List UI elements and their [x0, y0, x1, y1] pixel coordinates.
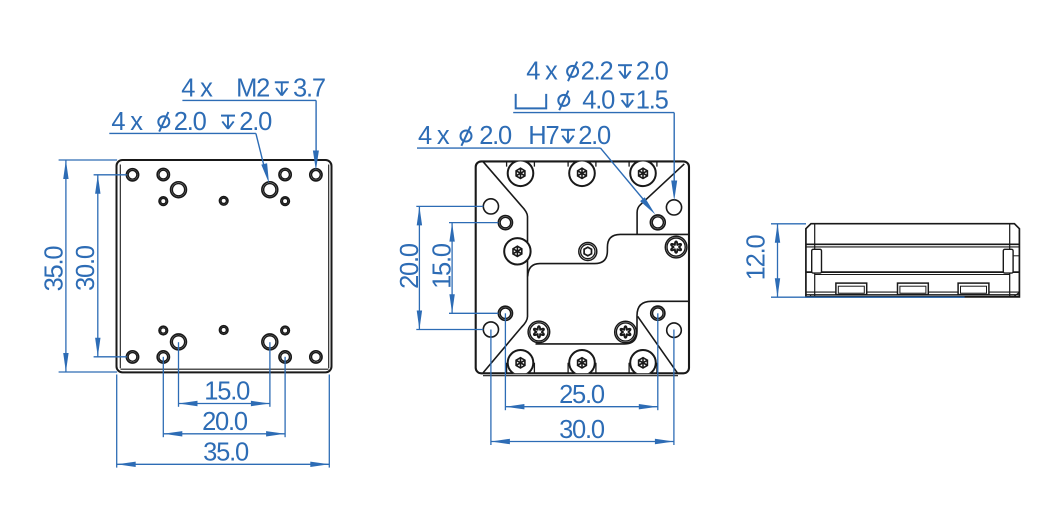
- side view right end cap line: [1009, 224, 1011, 297]
- dim 35.0 bottom left view: [116, 375, 118, 468]
- leader for dia2.0 callout: [109, 132, 256, 134]
- hole M2 corner top-left: [126, 169, 138, 181]
- left view chamfer line right edge: [328, 165, 330, 369]
- screw torx edge at (643,173): [628, 161, 630, 166]
- left view chamfer line bottom edge: [121, 368, 329, 370]
- hole M2 inner bottom-left: [157, 351, 169, 363]
- center set screw hex: [579, 243, 597, 261]
- platform left edge with corner diagonals: [483, 162, 527, 373]
- hole small top-left: [159, 197, 168, 206]
- dim 20.0 vertical middle view: [416, 205, 483, 207]
- svg-text:12.0: 12.0: [743, 234, 771, 280]
- svg-text:25.0: 25.0: [559, 381, 605, 409]
- left view: 35x35 base plate outline: [117, 160, 332, 372]
- hole M2 corner top-right: [310, 169, 322, 181]
- side view top plate bottom line: [806, 243, 1020, 245]
- hole M2 inner top-left: [157, 169, 169, 181]
- hole small center top: [219, 197, 228, 206]
- side view left end cap line: [814, 224, 816, 297]
- step contour lower-right: [536, 301, 690, 344]
- svg-text:4 x: 4 x: [418, 122, 450, 150]
- hole M2 corner bottom-right: [310, 351, 322, 363]
- screw torx edge at (520,173): [506, 161, 508, 166]
- side view bottom inner line: [806, 291, 1019, 293]
- callout counterbore dia4.0 depth 1.5: [516, 94, 547, 109]
- leader for H7 callout: [417, 147, 601, 149]
- corner flap top-right vertical and diagonal: [637, 164, 684, 235]
- hole M2 inner bottom-right: [279, 351, 291, 363]
- left view chamfer line left edge: [119, 165, 121, 369]
- svg-text:4 x: 4 x: [111, 108, 143, 136]
- side view bottom outer step: [811, 293, 1020, 297]
- svg-text:M2: M2: [236, 75, 269, 103]
- hole M2 corner bottom-left: [126, 351, 138, 363]
- hole dia2.0 dowel top-left: [171, 182, 187, 198]
- screw torx flower at (676,247): [665, 236, 687, 258]
- svg-text:20.0: 20.0: [396, 243, 424, 289]
- svg-text:2.0: 2.0: [239, 108, 272, 136]
- side view left rail block: [812, 249, 822, 273]
- svg-text:2.0: 2.0: [479, 122, 512, 150]
- svg-text:4.0: 4.0: [582, 86, 615, 114]
- screw torx flower at (539,332): [528, 321, 550, 343]
- leader for counterbore callout: [513, 112, 674, 114]
- svg-text:4 x: 4 x: [526, 57, 558, 85]
- dim 25.0 bottom middle view: [504, 313, 506, 410]
- svg-text:35.0: 35.0: [203, 439, 249, 467]
- hole dia2.2 top-left: [483, 199, 498, 214]
- dim 30.0 vertical left: extension lines: [94, 174, 127, 176]
- hole dia2.0 H7 bottom-right: [651, 306, 665, 320]
- screw torx flower at (626,332): [615, 321, 637, 343]
- hole small bottom-right: [281, 326, 290, 335]
- side view body outline with chamfered top corners: [806, 224, 1020, 297]
- svg-text:1.5: 1.5: [636, 86, 669, 114]
- hole small top-right: [281, 197, 290, 206]
- step contour upper: [528, 234, 689, 276]
- svg-text:4 x: 4 x: [181, 75, 213, 103]
- svg-text:2.0: 2.0: [578, 122, 611, 150]
- hole small bottom-left: [159, 326, 168, 335]
- svg-text:30.0: 30.0: [72, 245, 100, 291]
- hole dia2.0 H7 top-left: [498, 216, 512, 230]
- middle view: 35x35 top plate outline: [476, 161, 689, 373]
- svg-text:15.0: 15.0: [204, 377, 250, 405]
- hole dia2.0 H7 top-right: [650, 215, 665, 230]
- side view foot tab 1: [836, 283, 867, 295]
- middle view bottom chamfer line: [483, 375, 678, 377]
- hole dia2.2 bottom-right: [667, 323, 682, 338]
- side view right rail block: [1003, 249, 1013, 273]
- screw torx edge at (643,363): [628, 363, 630, 374]
- hole M2 inner top-right: [279, 169, 291, 181]
- dim 30.0 bottom middle view: [490, 330, 492, 446]
- screw torx edge at (520,363): [506, 363, 508, 374]
- leader for M2 callout: [182, 99, 316, 101]
- screw torx edge at (582,173): [567, 161, 569, 166]
- svg-text:3.7: 3.7: [293, 75, 325, 103]
- svg-text:30.0: 30.0: [559, 416, 605, 444]
- svg-text:20.0: 20.0: [202, 408, 248, 436]
- dim 30.0 vertical left: dimension line: [97, 175, 99, 357]
- side view foot tab 2: [898, 283, 929, 295]
- screw torx edge at (582,363): [567, 363, 569, 374]
- hole dia2.2 bottom-left: [483, 322, 498, 337]
- svg-text:2.0: 2.0: [174, 108, 207, 136]
- dim 15.0 vertical middle view: [449, 222, 498, 224]
- hole dia2.0 dowel bottom-right: [262, 334, 278, 350]
- hole small center bottom: [219, 326, 228, 335]
- svg-text:35.0: 35.0: [41, 246, 69, 292]
- screw torx mid at (517,251): [504, 238, 530, 264]
- svg-text:15.0: 15.0: [428, 243, 456, 289]
- side view mid band bottom line: [806, 271, 1020, 273]
- hole dia2.0 H7 bottom-left: [498, 306, 512, 320]
- hole dia2.0 dowel bottom-left: [171, 334, 187, 350]
- corner flap bottom-right diagonal: [638, 316, 678, 373]
- svg-text:2.2: 2.2: [581, 57, 613, 85]
- hole dia2.0 dowel top-right: [262, 182, 278, 198]
- side view foot tab 3: [958, 283, 989, 295]
- hole dia2.2 top-right: [666, 200, 681, 215]
- dim 35.0 vertical left: extension lines: [59, 159, 118, 161]
- dim 12.0 vertical side view: [771, 223, 806, 225]
- svg-text:H7: H7: [528, 122, 558, 150]
- dim 35.0 vertical left: dimension line: [65, 160, 67, 372]
- side view right rail tick: [1013, 255, 1019, 257]
- svg-text:2.0: 2.0: [636, 57, 669, 85]
- dim 15.0 bottom left view: [178, 342, 180, 407]
- dim 20.0 bottom left view: [162, 357, 164, 437]
- side view bottom face line: [806, 294, 1019, 296]
